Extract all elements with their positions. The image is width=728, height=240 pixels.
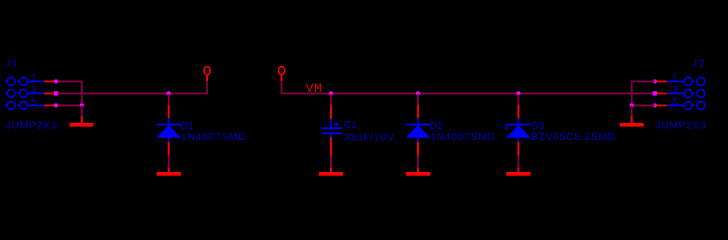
svg-text:1: 1 [31, 73, 37, 84]
svg-text:3: 3 [672, 85, 678, 96]
svg-text:C1: C1 [344, 120, 358, 131]
svg-text:1N4007SMD: 1N4007SMD [430, 132, 496, 143]
svg-text:VM: VM [306, 81, 323, 96]
svg-text:JUMP2X3: JUMP2X3 [655, 121, 706, 132]
svg-text:3: 3 [31, 85, 37, 96]
svg-text:BZV55C8.2SMD: BZV55C8.2SMD [531, 132, 616, 143]
svg-text:33uF/10V: 33uF/10V [344, 132, 395, 143]
svg-text:D3: D3 [531, 121, 545, 132]
svg-text:1N4007SMD: 1N4007SMD [181, 132, 247, 143]
svg-text:D2: D2 [430, 121, 444, 132]
svg-text:D1: D1 [180, 121, 194, 132]
svg-text:1: 1 [672, 73, 678, 84]
svg-text:J1: J1 [5, 59, 19, 70]
svg-text:5: 5 [31, 97, 37, 108]
svg-text:J2: J2 [692, 59, 706, 70]
svg-text:5: 5 [672, 97, 678, 108]
svg-text:JUMP2X3: JUMP2X3 [6, 121, 57, 132]
